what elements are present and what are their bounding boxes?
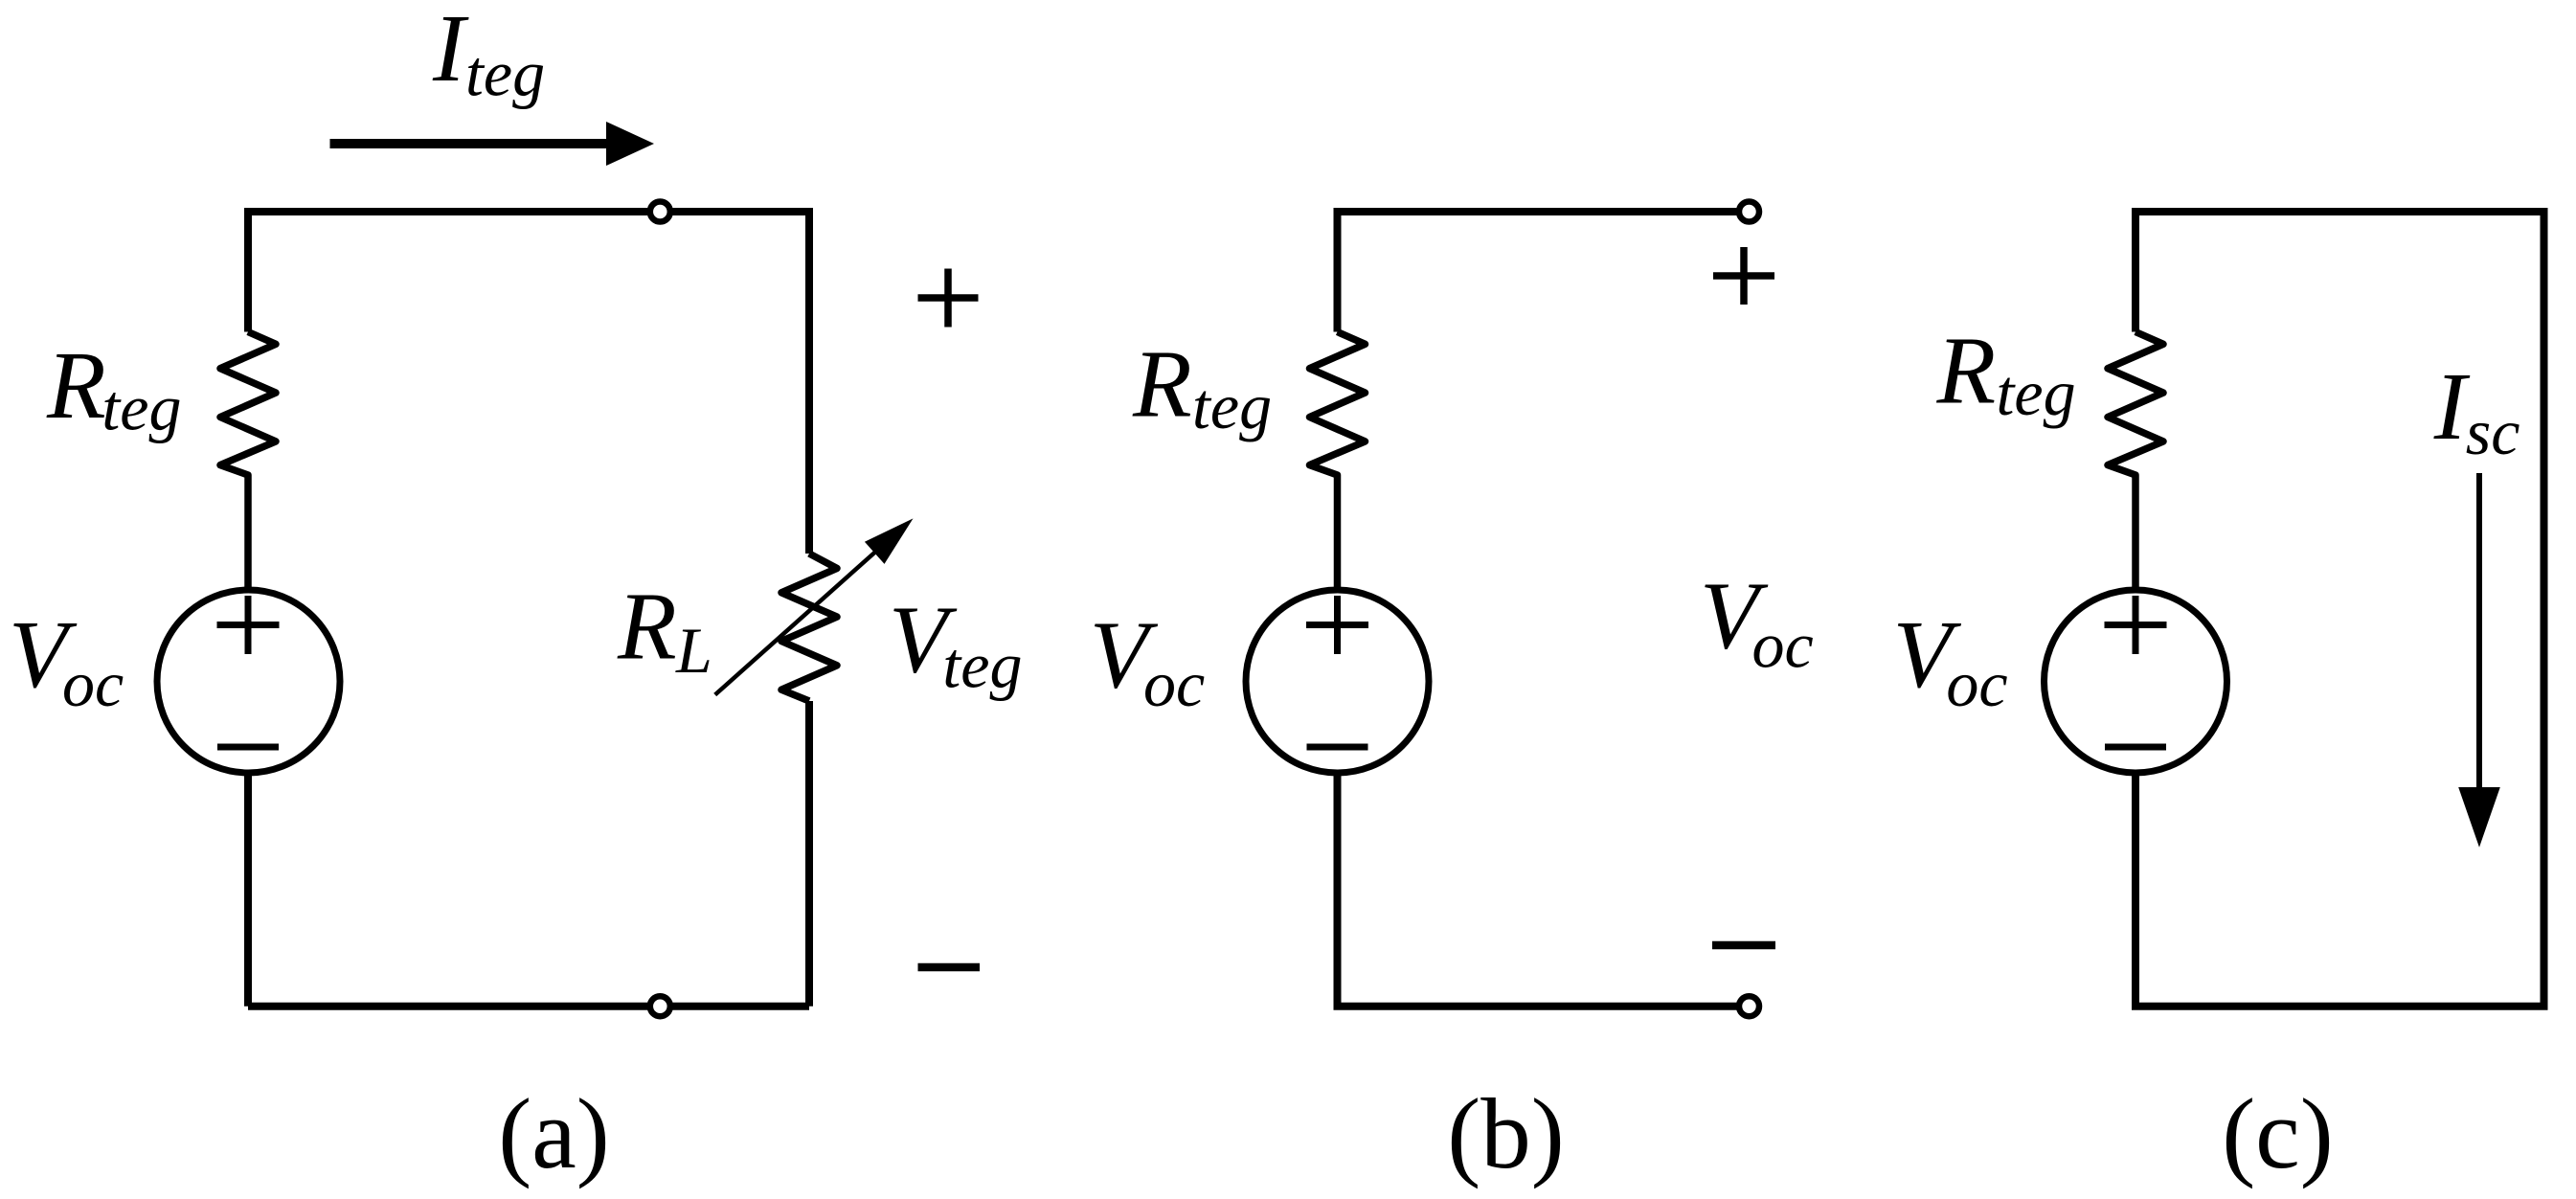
- resistor Rteg (b) zigzag: [1310, 332, 1366, 589]
- wire: (a) below source to bottom: [244, 773, 252, 1007]
- voltage source Voc (a) circle: [157, 590, 340, 773]
- resistor Rteg (c) zigzag: [2108, 332, 2163, 589]
- minus sign inside source (a): [217, 744, 279, 751]
- plus sign inside source (c): [2105, 596, 2167, 654]
- wire: (c) loop: [2135, 212, 2544, 1007]
- resistor Rteg (a) zigzag: [220, 332, 276, 589]
- node terminal (a) top: [650, 202, 670, 222]
- Isc arrow head: [2458, 787, 2500, 848]
- voltage source Voc (b) circle: [1246, 590, 1429, 773]
- wire: (b) top: [1338, 212, 1750, 332]
- RL variable arrow shaft: [715, 532, 898, 695]
- voltage source Voc (c) circle: [2045, 590, 2227, 773]
- plus sign (a) output: [918, 269, 979, 328]
- minus sign (a) output: [918, 963, 981, 972]
- minus sign inside source (b): [1307, 744, 1368, 751]
- minus sign (b) output: [1712, 941, 1775, 950]
- plus sign (b) output: [1713, 247, 1774, 305]
- RL variable arrow head: [865, 518, 914, 564]
- plus sign inside source (b): [1306, 596, 1368, 654]
- wire: (a) bottom: [248, 1003, 809, 1010]
- node terminal (a) bottom: [650, 996, 670, 1016]
- node terminal (b) top: [1739, 202, 1759, 222]
- wire: (b) below source + bottom: [1338, 773, 1750, 1007]
- svg-text:(c): (c): [2222, 1077, 2334, 1189]
- Isc arrow shaft: [2476, 473, 2482, 789]
- Iteg current arrow head: [606, 122, 654, 166]
- variable resistor RL zigzag: [781, 554, 837, 701]
- minus sign inside source (c): [2105, 744, 2166, 751]
- svg-text:(a): (a): [498, 1077, 610, 1189]
- node terminal (b) bottom: [1739, 996, 1759, 1016]
- Iteg current arrow shaft: [330, 139, 609, 148]
- plus sign inside source (a): [217, 596, 280, 654]
- svg-text:(b): (b): [1447, 1077, 1564, 1189]
- wire: (a) right lower: [805, 701, 813, 1007]
- wire: (a) top + left upper + right upper: [248, 212, 809, 554]
